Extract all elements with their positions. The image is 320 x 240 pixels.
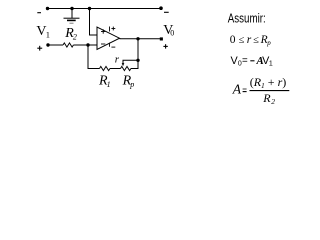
svg-text:≤: ≤ — [253, 35, 259, 46]
svg-text:(R1 + r): (R1 + r) — [250, 75, 287, 90]
svg-text:1: 1 — [269, 61, 273, 68]
svg-text:r: r — [247, 34, 252, 46]
svg-text:r: r — [115, 53, 120, 65]
svg-text:Assumir:: Assumir: — [228, 11, 266, 26]
svg-text:0: 0 — [170, 29, 174, 38]
svg-text:A: A — [232, 81, 242, 96]
svg-text:1: 1 — [46, 29, 50, 39]
svg-text:0: 0 — [230, 34, 236, 46]
svg-text:2: 2 — [73, 32, 77, 41]
svg-text:p: p — [129, 80, 134, 89]
svg-text:≤: ≤ — [239, 35, 245, 46]
svg-text:2: 2 — [271, 97, 275, 106]
svg-text:=: = — [242, 55, 248, 66]
svg-text:1: 1 — [107, 80, 111, 89]
svg-text:R: R — [262, 91, 271, 105]
svg-text:p: p — [266, 39, 271, 47]
